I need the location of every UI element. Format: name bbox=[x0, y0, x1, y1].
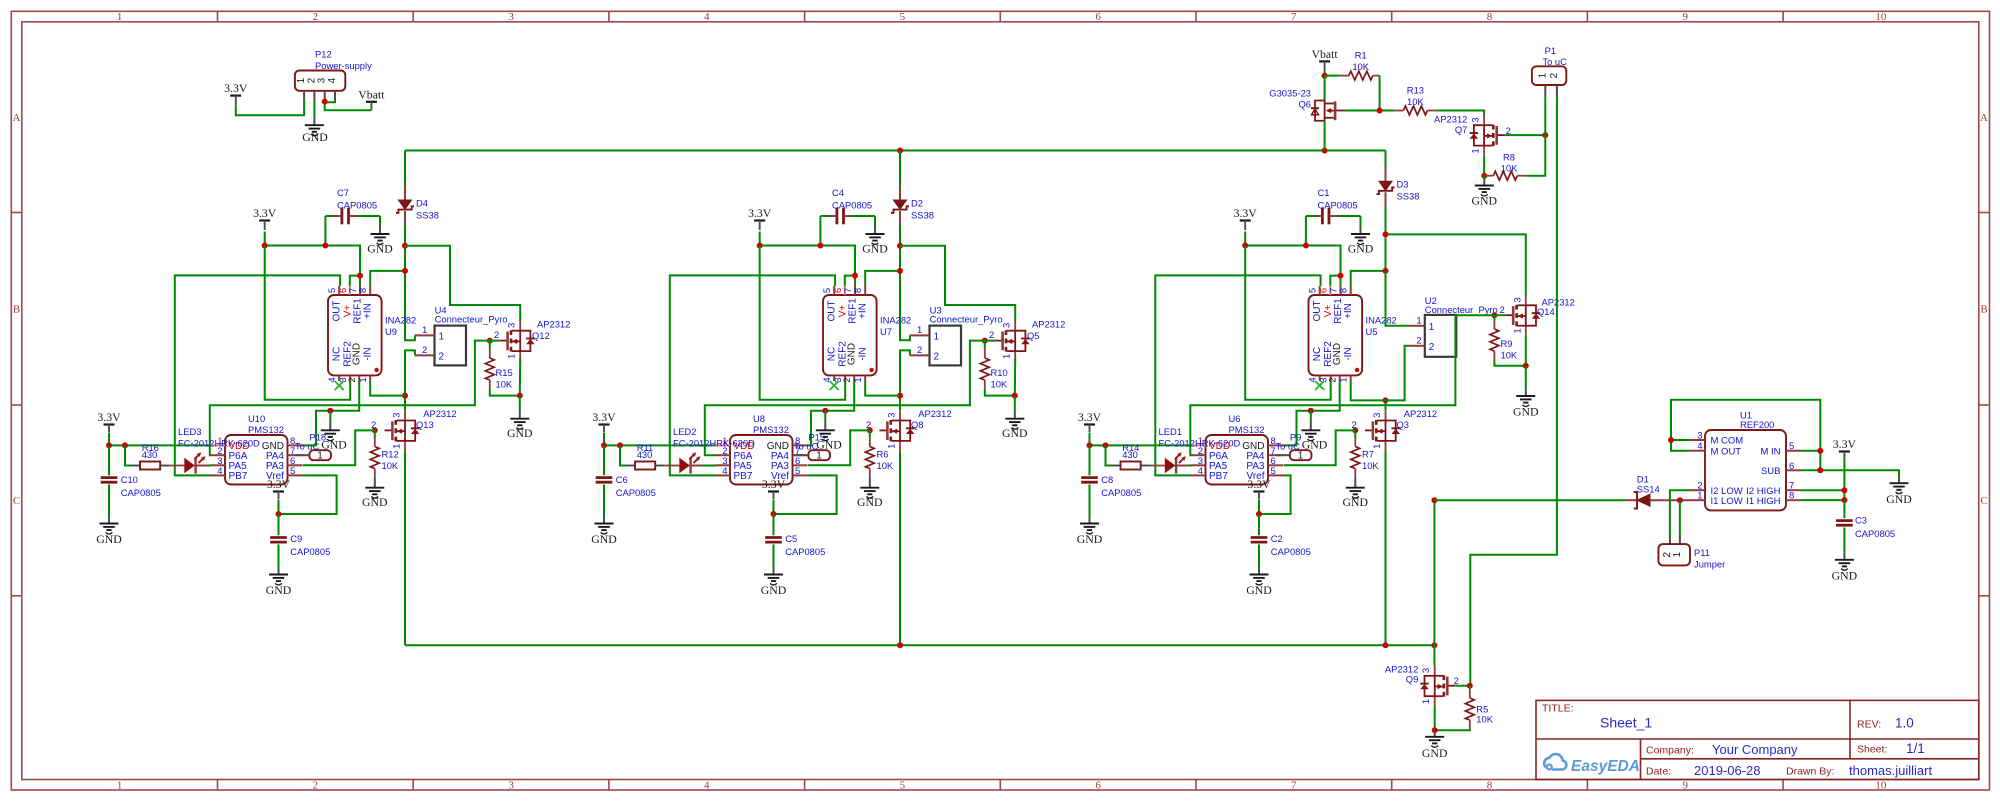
svg-text:430: 430 bbox=[1122, 449, 1138, 460]
wire Vref to 3.3V bbox=[279, 475, 337, 514]
svg-text:2: 2 bbox=[1416, 335, 1421, 346]
resistor R11 430 bbox=[620, 445, 626, 465]
svg-text:10K: 10K bbox=[1501, 350, 1518, 361]
junction bus to Q9/D1 bbox=[1431, 642, 1437, 648]
wire firing branch to Q5 bbox=[900, 246, 1015, 321]
svg-text:3: 3 bbox=[1421, 668, 1432, 673]
svg-text:INA282: INA282 bbox=[880, 315, 911, 326]
svg-text:GND: GND bbox=[367, 242, 393, 256]
svg-text:C7: C7 bbox=[337, 187, 349, 198]
svg-text:1: 1 bbox=[117, 779, 123, 791]
capacitor C3 CAP0805 bbox=[1843, 500, 1845, 518]
svg-text:10K: 10K bbox=[1362, 460, 1379, 471]
wire Vbatt top bus bbox=[405, 150, 1386, 152]
svg-text:2: 2 bbox=[439, 352, 445, 363]
svg-text:CAP0805: CAP0805 bbox=[616, 487, 656, 498]
wire mcu GND pin to ground bbox=[303, 411, 331, 446]
connector U3 Connecteur_Pyro bbox=[930, 326, 962, 366]
svg-text:A: A bbox=[13, 112, 21, 124]
svg-text:CAP0805: CAP0805 bbox=[290, 546, 330, 557]
svg-text:8: 8 bbox=[1789, 491, 1794, 502]
wire Q6 gate to R13 bbox=[1345, 110, 1395, 112]
junction V+ / REF1 3.3V bbox=[1338, 273, 1344, 279]
junction -IN tap bbox=[402, 393, 408, 399]
svg-text:I1 LOW: I1 LOW bbox=[1711, 496, 1743, 507]
svg-text:9: 9 bbox=[1682, 779, 1688, 791]
svg-text:10K: 10K bbox=[877, 460, 894, 471]
junction source/ground bbox=[517, 393, 523, 399]
connector P1 To uC bbox=[1532, 66, 1566, 85]
svg-text:GND: GND bbox=[1332, 343, 1343, 365]
svg-text:Jumper: Jumper bbox=[1694, 559, 1725, 570]
svg-text:6: 6 bbox=[1095, 11, 1101, 23]
capacitor C1 CAP0805 bbox=[1322, 208, 1329, 225]
transistor Q12 AP2312 bbox=[519, 321, 521, 331]
svg-text:GND: GND bbox=[1422, 746, 1448, 760]
svg-text:U10: U10 bbox=[248, 413, 265, 424]
svg-text:GND: GND bbox=[847, 343, 858, 365]
wire mcu GND pin to ground bbox=[1283, 411, 1311, 446]
svg-text:GND: GND bbox=[1077, 532, 1103, 546]
svg-text:P1: P1 bbox=[1545, 45, 1556, 56]
wire Vref to 3.3V bbox=[774, 475, 837, 514]
svg-text:NC: NC bbox=[332, 347, 343, 361]
power flag 3.3V (VDD) bbox=[104, 423, 115, 425]
op-amp U9 INA282 current-sense amplifier bbox=[328, 295, 382, 375]
wire source Q12 to ground bbox=[519, 358, 521, 395]
diode D2 SS38 bbox=[899, 151, 901, 201]
junction Q9 gate bbox=[1467, 683, 1473, 689]
wire R13 to Q7 drain bbox=[1436, 111, 1484, 116]
wire mcu GND pin to ground bbox=[808, 411, 826, 446]
wire V+ pin jog bbox=[350, 276, 360, 286]
junction firing line to switch branch bbox=[897, 243, 903, 249]
svg-text:7: 7 bbox=[1291, 11, 1297, 23]
svg-text:10K: 10K bbox=[1352, 61, 1369, 72]
junction bus ch3 bbox=[1383, 642, 1389, 648]
junction 3.3V stem bbox=[1242, 243, 1248, 249]
ground (INA282 GND pin) bbox=[329, 411, 331, 421]
transistor Q5 AP2312 bbox=[1014, 321, 1016, 331]
svg-text:OUT: OUT bbox=[1312, 300, 1323, 321]
svg-text:8: 8 bbox=[358, 288, 369, 293]
wire firing node to D1 bbox=[1434, 499, 1625, 501]
svg-text:1: 1 bbox=[1672, 551, 1683, 557]
wire SUB to ground bbox=[1801, 470, 1899, 477]
svg-text:NC: NC bbox=[1312, 347, 1323, 361]
svg-text:AP2312: AP2312 bbox=[1032, 318, 1065, 329]
svg-text:To uC: To uC bbox=[295, 442, 320, 452]
wire source Q13 to firing bus bbox=[404, 451, 406, 645]
svg-text:R10: R10 bbox=[991, 367, 1008, 378]
diode D4 SS38 bbox=[404, 151, 406, 201]
svg-text:GND: GND bbox=[362, 495, 388, 509]
transistor Q8 AP2312 low-side bbox=[899, 410, 901, 420]
svg-text:4: 4 bbox=[1198, 466, 1203, 477]
ground (C10) bbox=[108, 485, 110, 518]
ground (Q14 source) bbox=[1525, 366, 1527, 389]
svg-text:LED1: LED1 bbox=[1159, 426, 1182, 437]
capacitor C9 CAP0805 (Vref) bbox=[278, 514, 280, 535]
svg-text:1: 1 bbox=[317, 451, 323, 462]
wire REF2 to 3.3V bbox=[760, 246, 846, 400]
ground (C2) bbox=[1258, 544, 1260, 568]
svg-text:SS38: SS38 bbox=[911, 210, 934, 221]
svg-text:Q7: Q7 bbox=[1455, 124, 1468, 135]
junction +IN tap bbox=[402, 268, 408, 274]
svg-text:1: 1 bbox=[1471, 148, 1482, 153]
transistor Q13 AP2312 low-side bbox=[404, 410, 406, 420]
svg-text:2: 2 bbox=[313, 779, 319, 791]
resistor R10 10K pulldown bbox=[984, 341, 986, 349]
svg-text:5: 5 bbox=[900, 779, 906, 791]
svg-text:U9: U9 bbox=[385, 326, 397, 337]
ground (C6) bbox=[603, 485, 605, 518]
svg-text:10K: 10K bbox=[1407, 96, 1424, 107]
junction bus / Q6 bbox=[1322, 148, 1328, 154]
svg-text:R13: R13 bbox=[1407, 84, 1424, 95]
junction gate Q12 bbox=[487, 338, 493, 344]
svg-text:4: 4 bbox=[722, 466, 727, 477]
svg-text:Drawn By:: Drawn By: bbox=[1786, 766, 1834, 778]
svg-text:GND: GND bbox=[1886, 492, 1912, 506]
wire gate Q12 to P6A bbox=[210, 341, 490, 456]
svg-text:1: 1 bbox=[1002, 354, 1013, 359]
ground (decoupling C1) bbox=[1351, 234, 1370, 245]
wire I2 LOW to P11 pin2 bbox=[1670, 490, 1691, 536]
svg-text:M COM: M COM bbox=[1711, 436, 1744, 447]
wire gate Q13 to PA3 bbox=[303, 430, 375, 465]
wire source Q8 to firing bus bbox=[899, 451, 901, 645]
ground (Q5 source) bbox=[1014, 396, 1016, 411]
junction V+ / REF1 3.3V bbox=[357, 273, 363, 279]
svg-text:2: 2 bbox=[989, 330, 994, 341]
mcu U8 PMS132 bbox=[730, 435, 793, 485]
power flag 3.3V (VDD) bbox=[599, 423, 610, 425]
mcu U10 PMS132 bbox=[225, 435, 288, 485]
svg-text:5: 5 bbox=[1308, 288, 1319, 293]
svg-text:3: 3 bbox=[508, 779, 514, 791]
svg-text:thomas.juilliart: thomas.juilliart bbox=[1849, 763, 1932, 778]
junction INA ground bbox=[822, 408, 828, 414]
svg-text:D3: D3 bbox=[1397, 179, 1409, 190]
ground (C9) bbox=[278, 544, 280, 568]
svg-text:-IN: -IN bbox=[858, 347, 869, 360]
svg-text:Q3: Q3 bbox=[1397, 419, 1410, 430]
connector P12 Power-supply bbox=[295, 71, 345, 91]
svg-text:3.3V: 3.3V bbox=[1078, 410, 1102, 424]
svg-text:4: 4 bbox=[704, 779, 710, 791]
wire gate Q14 to P6A bbox=[1190, 315, 1494, 455]
ground (R6) bbox=[869, 478, 871, 488]
mcu U6 PMS132 bbox=[1206, 435, 1269, 485]
junction 3.3V stem bbox=[262, 243, 268, 249]
wire I2 HIGH to 3.3V bbox=[1801, 489, 1845, 491]
svg-text:Vbatt: Vbatt bbox=[358, 87, 385, 101]
junction SUB bbox=[1817, 467, 1823, 473]
junction P1 pin1 node bbox=[1542, 132, 1548, 138]
power flag Vbatt (battery input) bbox=[1319, 60, 1330, 62]
junction VDD rail bbox=[106, 442, 112, 448]
svg-text:GND: GND bbox=[1002, 426, 1028, 440]
transistor Q9 AP2312 bbox=[1434, 666, 1436, 676]
power flag Vbatt (P12) bbox=[366, 101, 377, 103]
svg-text:LED2: LED2 bbox=[673, 426, 696, 437]
svg-text:6: 6 bbox=[1095, 779, 1101, 791]
svg-text:R8: R8 bbox=[1503, 152, 1515, 163]
svg-text:2: 2 bbox=[1328, 377, 1339, 382]
resistor R14 430 bbox=[1106, 445, 1112, 465]
ground (decoupling C4) bbox=[866, 234, 885, 245]
wire firing bus bottom bbox=[405, 644, 1434, 646]
wire P1 pin1 down bbox=[1544, 97, 1546, 135]
junction -IN tap bbox=[1383, 397, 1389, 403]
svg-text:M OUT: M OUT bbox=[1711, 446, 1742, 457]
junction Q14 source bbox=[1523, 363, 1529, 369]
wire Q7 gate to P1 pin1 bbox=[1505, 134, 1546, 136]
wire P1 pin2 to Q9 gate bbox=[1470, 97, 1557, 686]
svg-text:3: 3 bbox=[1697, 431, 1702, 442]
svg-text:R1: R1 bbox=[1355, 50, 1367, 61]
svg-text:REF200: REF200 bbox=[1740, 419, 1774, 430]
junction +IN tap bbox=[1383, 268, 1389, 274]
svg-text:C5: C5 bbox=[785, 533, 797, 544]
svg-text:1: 1 bbox=[816, 451, 822, 462]
svg-text:5: 5 bbox=[327, 288, 338, 293]
wire Q6 drain to bus bbox=[1324, 121, 1326, 151]
wire 3.3V rail to INA282 supply bbox=[265, 232, 360, 286]
svg-text:CAP0805: CAP0805 bbox=[785, 546, 825, 557]
svg-text:Connecteur_Pyro: Connecteur_Pyro bbox=[930, 313, 1003, 324]
wire 3.3V rail to INA282 supply bbox=[1245, 232, 1340, 286]
svg-text:Connecteur_Pyro: Connecteur_Pyro bbox=[435, 313, 508, 324]
wire P11 pin1 riser bbox=[1679, 500, 1681, 536]
svg-text:INA282: INA282 bbox=[385, 315, 416, 326]
svg-text:Your Company: Your Company bbox=[1712, 742, 1798, 757]
svg-text:3: 3 bbox=[887, 413, 898, 418]
svg-text:U8: U8 bbox=[753, 413, 765, 424]
svg-text:1: 1 bbox=[358, 377, 369, 382]
svg-text:1: 1 bbox=[117, 11, 123, 23]
junction source/ground bbox=[1012, 393, 1018, 399]
svg-text:6: 6 bbox=[1789, 461, 1794, 472]
svg-text:I1 HIGH: I1 HIGH bbox=[1746, 496, 1780, 507]
svg-text:1: 1 bbox=[1512, 328, 1523, 333]
ground (R7) bbox=[1354, 478, 1356, 488]
no-connect flag pin 4 of U9 bbox=[335, 381, 344, 390]
svg-text:U7: U7 bbox=[880, 326, 892, 337]
capacitor C4 CAP0805 bbox=[837, 208, 844, 225]
svg-text:PB7: PB7 bbox=[1209, 471, 1228, 482]
wire firing line upper bbox=[405, 225, 415, 340]
svg-text:1: 1 bbox=[1537, 72, 1548, 78]
junction firing line to switch branch bbox=[402, 243, 408, 249]
power flag 3.3V (P12 pin 1) bbox=[230, 94, 241, 96]
resistor R8 10K bbox=[1484, 175, 1493, 177]
ground (INA282 GND pin) bbox=[824, 411, 826, 421]
ground (SUB) bbox=[1898, 478, 1900, 484]
wire U2 pin2 return bbox=[1386, 346, 1410, 401]
junction gate Q14 bbox=[1491, 312, 1497, 318]
svg-text:AP2312: AP2312 bbox=[423, 408, 456, 419]
svg-text:8: 8 bbox=[1339, 288, 1350, 293]
svg-text:2: 2 bbox=[917, 345, 922, 356]
svg-text:PMS132: PMS132 bbox=[1229, 424, 1265, 435]
svg-text:+IN: +IN bbox=[858, 303, 869, 319]
svg-text:9: 9 bbox=[1682, 11, 1688, 23]
svg-text:5: 5 bbox=[822, 288, 833, 293]
svg-text:2: 2 bbox=[422, 345, 427, 356]
svg-text:GND: GND bbox=[1348, 242, 1374, 256]
svg-text:GND: GND bbox=[266, 583, 292, 597]
svg-text:5: 5 bbox=[290, 466, 295, 477]
connector P18 To uC bbox=[309, 450, 331, 460]
capacitor C5 CAP0805 (Vref) bbox=[773, 514, 775, 535]
title block bbox=[1536, 700, 1979, 779]
capacitor C8 CAP0805 (VDD) bbox=[1089, 445, 1091, 475]
wire OUT of INA282 to PB7 bbox=[175, 275, 340, 475]
svg-text:C1: C1 bbox=[1318, 187, 1330, 198]
svg-text:2: 2 bbox=[494, 330, 499, 341]
wire +IN sense bbox=[370, 271, 405, 286]
svg-text:Vbatt: Vbatt bbox=[1311, 47, 1338, 61]
wire source Q5 to ground bbox=[1014, 358, 1016, 395]
junction firing branch bbox=[1383, 231, 1389, 237]
wire Q9 gate bbox=[1455, 685, 1470, 687]
svg-text:C9: C9 bbox=[290, 533, 302, 544]
svg-text:5: 5 bbox=[795, 466, 800, 477]
svg-text:3: 3 bbox=[507, 323, 518, 328]
junction gate Q13 bbox=[372, 427, 378, 433]
junction gate Q5 bbox=[982, 338, 988, 344]
junction +IN tap bbox=[897, 268, 903, 274]
transistor Q3 AP2312 low-side bbox=[1385, 410, 1387, 420]
wire 3.3V to VDD bbox=[604, 433, 715, 445]
wire -IN sense bbox=[1351, 381, 1386, 400]
svg-text:GND: GND bbox=[1343, 495, 1369, 509]
svg-text:10: 10 bbox=[1875, 779, 1887, 791]
svg-text:AP2312: AP2312 bbox=[918, 408, 951, 419]
svg-text:8: 8 bbox=[1487, 11, 1493, 23]
svg-text:CAP0805: CAP0805 bbox=[1318, 200, 1358, 211]
svg-text:INA282: INA282 bbox=[1366, 315, 1397, 326]
svg-text:2: 2 bbox=[347, 377, 358, 382]
svg-text:Q8: Q8 bbox=[911, 419, 924, 430]
svg-text:430: 430 bbox=[142, 449, 158, 460]
svg-text:FC-2012HRK-620D: FC-2012HRK-620D bbox=[1159, 438, 1241, 449]
svg-text:GND: GND bbox=[591, 532, 617, 546]
svg-text:3.3V: 3.3V bbox=[253, 206, 277, 220]
wire source Q14 to ground bbox=[1525, 336, 1527, 366]
diode D3 SS38 bbox=[1385, 151, 1387, 182]
power flag 3.3V (Vref) bbox=[273, 490, 284, 492]
svg-text:Date:: Date: bbox=[1646, 766, 1671, 778]
svg-text:GND: GND bbox=[761, 583, 787, 597]
svg-text:+IN: +IN bbox=[363, 303, 374, 319]
svg-text:-IN: -IN bbox=[1343, 347, 1354, 360]
svg-text:To uC: To uC bbox=[1276, 442, 1301, 452]
svg-text:10K: 10K bbox=[1476, 713, 1493, 724]
svg-text:Q5: Q5 bbox=[1027, 330, 1040, 341]
svg-text:Sheet_1: Sheet_1 bbox=[1600, 715, 1652, 731]
svg-text:Q13: Q13 bbox=[416, 419, 434, 430]
wire P12 pin3/pin4 to Vbatt bbox=[325, 100, 335, 102]
wire -IN sense bbox=[865, 381, 900, 396]
no-connect flag pin 4 of U5 bbox=[1315, 381, 1324, 390]
svg-text:4: 4 bbox=[327, 77, 338, 83]
svg-text:PB7: PB7 bbox=[229, 471, 248, 482]
svg-text:GND: GND bbox=[1513, 405, 1539, 419]
svg-text:2: 2 bbox=[313, 11, 319, 23]
junction Vref 3.3V bbox=[1256, 511, 1262, 517]
resistor R5 10K bbox=[1469, 686, 1471, 689]
svg-text:2019-06-28: 2019-06-28 bbox=[1694, 763, 1761, 778]
svg-text:OUT: OUT bbox=[827, 300, 838, 321]
svg-text:C: C bbox=[1980, 495, 1987, 507]
power flag 3.3V (INA282 supply) bbox=[1240, 219, 1251, 221]
svg-text:P11: P11 bbox=[1694, 547, 1710, 558]
svg-text:SS14: SS14 bbox=[1637, 483, 1660, 494]
svg-text:10K: 10K bbox=[1501, 163, 1518, 174]
junction D1 node bbox=[1431, 497, 1437, 503]
svg-text:Q9: Q9 bbox=[1406, 674, 1419, 685]
junction M IN bbox=[1817, 448, 1823, 454]
svg-text:10K: 10K bbox=[382, 460, 399, 471]
LED LED3 FC-2012HRK-620D bbox=[184, 458, 195, 473]
svg-text:NC: NC bbox=[827, 347, 838, 361]
svg-text:3: 3 bbox=[392, 413, 403, 418]
svg-text:3: 3 bbox=[1002, 323, 1013, 328]
svg-text:R15: R15 bbox=[496, 367, 513, 378]
ground (decoupling C7) bbox=[371, 234, 390, 245]
svg-text:3.3V: 3.3V bbox=[748, 206, 772, 220]
junction C C1 to 3.3V bbox=[1303, 243, 1309, 249]
ground (C8) bbox=[1089, 485, 1091, 518]
svg-text:EasyEDA: EasyEDA bbox=[1571, 758, 1640, 775]
power flag 3.3V (INA282 supply) bbox=[754, 219, 765, 221]
wire V+ pin jog bbox=[845, 276, 855, 286]
wire bus to Q9 drain bbox=[1433, 645, 1435, 665]
ground (P12 pin 2) bbox=[313, 100, 315, 117]
wire P12 pin1 to 3.3V bbox=[236, 100, 304, 115]
svg-text:5: 5 bbox=[900, 11, 906, 23]
svg-text:5: 5 bbox=[1271, 466, 1276, 477]
ground (INA282 GND pin) bbox=[1310, 411, 1312, 421]
capacitor C6 CAP0805 (VDD) bbox=[603, 445, 605, 475]
wire 3.3V to VDD bbox=[1090, 433, 1191, 445]
svg-text:2: 2 bbox=[1429, 342, 1435, 353]
svg-text:GND: GND bbox=[96, 532, 122, 546]
svg-text:GND: GND bbox=[352, 343, 363, 365]
capacitor C2 CAP0805 (Vref) bbox=[1258, 514, 1260, 535]
svg-text:1: 1 bbox=[917, 325, 922, 336]
svg-text:3.3V: 3.3V bbox=[1234, 206, 1258, 220]
svg-text:3.3V: 3.3V bbox=[592, 410, 616, 424]
svg-text:U5: U5 bbox=[1366, 326, 1378, 337]
svg-text:1: 1 bbox=[853, 377, 864, 382]
svg-text:1: 1 bbox=[1421, 699, 1432, 704]
ground (C5) bbox=[773, 544, 775, 568]
svg-text:2: 2 bbox=[1500, 305, 1505, 316]
wire +IN sense bbox=[865, 271, 900, 286]
junction M COM bbox=[1668, 437, 1674, 443]
svg-text:CAP0805: CAP0805 bbox=[1271, 546, 1311, 557]
wire -IN sense bbox=[370, 381, 405, 396]
wire +IN sense bbox=[1351, 271, 1386, 286]
svg-text:GND: GND bbox=[302, 130, 328, 144]
wire bus to D1 node bbox=[1433, 500, 1435, 645]
svg-text:3.3V: 3.3V bbox=[1247, 477, 1271, 491]
